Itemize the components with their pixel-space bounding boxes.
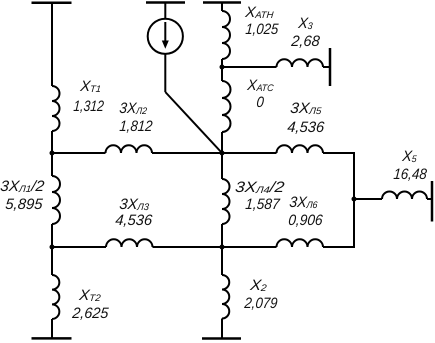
top bus bar left	[32, 2, 72, 5]
inductor X2	[222, 275, 229, 319]
wire: X5 branch right part	[427, 198, 432, 200]
wire: center vertical to X2	[221, 247, 223, 275]
current source arrow shaft	[164, 22, 166, 42]
node: center / line 2	[220, 245, 225, 250]
label 3XL6	[289, 195, 319, 212]
wire: line 2 right segment	[323, 246, 354, 248]
terminal bar X5	[431, 181, 434, 222]
value X3 = 2,68	[290, 34, 320, 49]
inductor 3XL2	[106, 145, 153, 153]
wire: center vertical bottom	[221, 319, 223, 339]
value 3XL1/2 = 5,895	[4, 197, 42, 212]
label X5	[401, 149, 417, 166]
wire: center vertical below 3XL4/2	[221, 224, 223, 247]
label 3XL1/2	[0, 179, 45, 196]
wire: left vertical bottom	[51, 319, 53, 339]
wire: left vertical to coil 3XL1/2	[51, 153, 53, 176]
wire: line 1 left segment	[52, 152, 106, 154]
wire: current source top lead	[164, 3, 166, 19]
wire: X3 branch right part	[323, 66, 330, 68]
inductor 3XL1/2	[52, 176, 60, 224]
wire: left vertical to XT2	[51, 247, 53, 275]
label XATN	[245, 5, 275, 22]
inductor X5	[382, 192, 427, 199]
wire: X5 branch left part	[354, 198, 382, 200]
value 3XL5 = 4,536	[286, 120, 324, 135]
inductor XT1	[52, 86, 60, 131]
node: center / X3 branch	[220, 65, 225, 70]
value XT1 = 1,312	[73, 99, 104, 114]
label X2	[249, 278, 267, 295]
inductor XATC	[222, 81, 231, 132]
wire: left vertical upper	[51, 3, 53, 86]
inductor 3XL6	[277, 239, 324, 247]
value 3XL6 = 0,906	[287, 213, 322, 228]
wire: center vertical node to XATC	[221, 67, 223, 81]
wire: left vertical below 3XL1/2	[51, 224, 53, 247]
wire: current source bottom lead	[164, 54, 166, 92]
wire: line 2 middle segment	[153, 246, 277, 248]
label 3XL2	[119, 101, 148, 118]
value 3XL4/2 = 1,587	[244, 197, 279, 212]
node: left / line 1	[50, 151, 55, 156]
wire: center vertical top	[221, 3, 223, 12]
top bus bar center	[203, 1, 241, 4]
value 3XL3 = 4,536	[115, 213, 153, 228]
inductor 3XL5	[277, 145, 324, 153]
label XT2	[78, 288, 101, 305]
node: left / line 2	[50, 245, 55, 250]
terminal bar X3	[329, 48, 332, 86]
value X5 = 16,48	[393, 167, 428, 182]
wire: line 1 right segment	[323, 152, 354, 154]
top bus bar over current source	[146, 1, 185, 4]
wire: right vertical	[353, 152, 355, 248]
bottom bus bar left	[32, 337, 72, 340]
bottom bus bar center	[202, 337, 241, 340]
inductor 3XL4/2	[222, 179, 230, 224]
inductor X3	[277, 59, 324, 67]
label 3XL4/2	[234, 180, 285, 197]
value XATN = 1,025	[245, 22, 279, 37]
wire: line 2 left segment	[52, 246, 106, 248]
wire: diagonal from source to center node	[165, 92, 222, 153]
inductor XATN	[222, 11, 230, 59]
node: center / line 1	[220, 151, 225, 156]
value X2 = 2,079	[243, 296, 277, 311]
label X3	[297, 16, 313, 33]
wire: left vertical between XT1 and node	[51, 131, 53, 153]
value XATC = 0	[256, 95, 264, 110]
current source arrow head	[162, 41, 169, 49]
wire: center vertical XATN to node	[221, 59, 223, 67]
label XT1	[80, 79, 102, 96]
value XT2 = 2,625	[72, 306, 109, 321]
wire: line 1 middle segment	[152, 152, 277, 154]
wire: center vertical XATC to line1 node	[221, 132, 223, 153]
label 3XL5	[289, 101, 322, 118]
wire: center vertical to 3XL4/2	[221, 153, 223, 179]
label XATC	[246, 78, 274, 95]
label 3XL3	[118, 197, 149, 214]
inductor XT2	[52, 275, 59, 319]
wire: X3 branch left part	[222, 66, 277, 68]
inductor 3XL3	[106, 239, 153, 247]
current source circle	[148, 19, 183, 54]
node: right / X5 branch	[352, 197, 357, 202]
value 3XL2 = 1,812	[119, 119, 153, 134]
